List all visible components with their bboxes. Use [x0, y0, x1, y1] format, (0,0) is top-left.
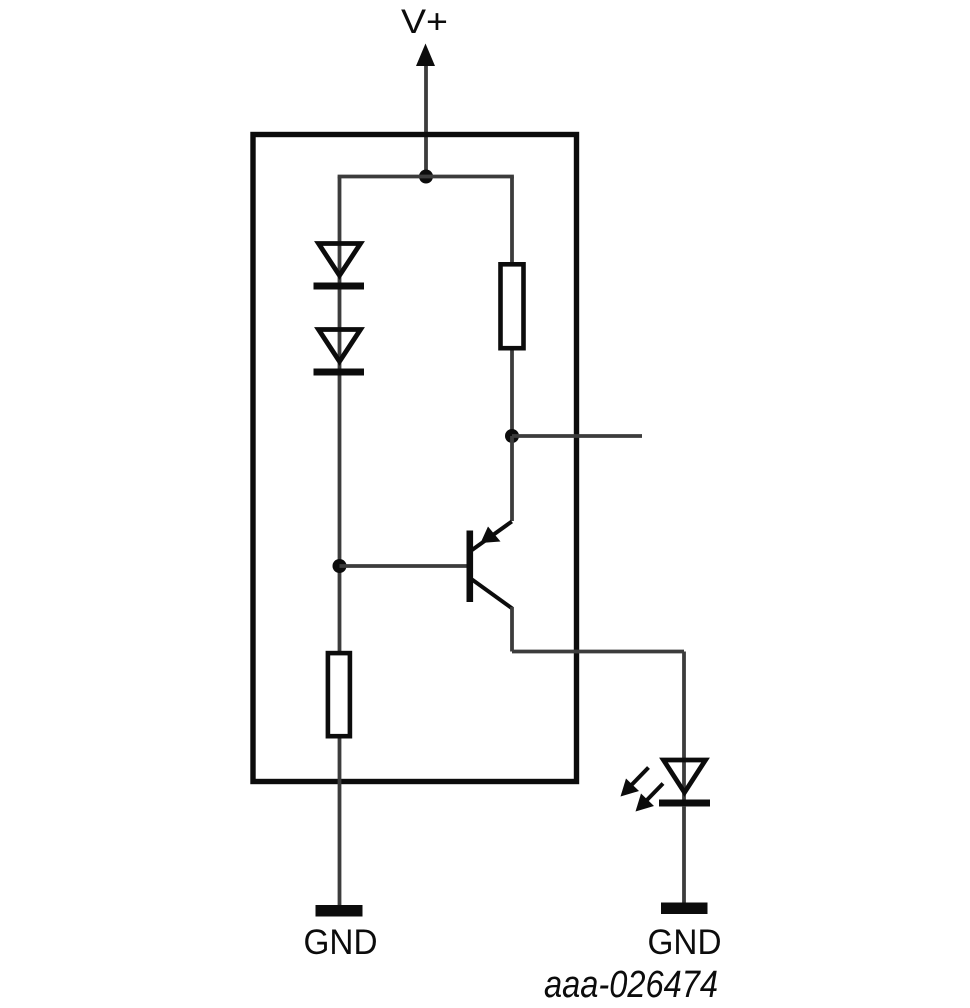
LED light arrow 1 — [621, 768, 649, 797]
resistor R2 bottom left — [328, 653, 350, 736]
IC boundary box U1 — [253, 135, 577, 782]
wire left branch vertical — [338, 177, 342, 652]
wire LED anode vertical — [682, 652, 686, 802]
diode D1 triangle — [319, 244, 361, 276]
wire LED cathode to GND — [682, 806, 686, 903]
diode D1 cathode bar — [314, 283, 365, 290]
wire collector vertical — [510, 607, 514, 652]
wire V+ supply vertical — [424, 58, 428, 177]
transistor Q1 emitter diagonal — [472, 522, 512, 551]
node base junction dot — [333, 559, 347, 573]
svg-text:V+: V+ — [401, 3, 448, 41]
diode D2 cathode bar — [314, 369, 365, 376]
wire collector horizontal to LED — [512, 650, 684, 654]
transistor Q1 base bar — [467, 531, 474, 603]
wire node to emitter — [510, 436, 514, 521]
wire top rail horizontal — [338, 175, 514, 179]
diode D2 triangle — [319, 330, 361, 362]
svg-text:aaa-026474: aaa-026474 — [544, 964, 718, 1006]
wire output horizontal — [512, 434, 642, 438]
transistor Q1 collector diagonal — [472, 580, 512, 609]
node V+ junction dot — [419, 170, 433, 184]
V+ arrowhead — [416, 44, 435, 67]
LED light arrow 2 — [636, 784, 664, 812]
resistor R1 — [501, 264, 524, 348]
LED triangle — [664, 760, 706, 793]
svg-text:GND: GND — [304, 923, 378, 962]
node output junction dot — [505, 429, 519, 443]
svg-text:GND: GND — [648, 923, 722, 962]
transistor Q1 emitter arrowhead — [481, 527, 501, 544]
wire right branch upper vertical — [510, 177, 514, 263]
ground GND right bar — [661, 903, 708, 915]
ground GND left bar — [316, 905, 363, 917]
wire R1 to node — [510, 351, 514, 437]
wire R2 to GND — [338, 739, 342, 906]
wire base horizontal — [340, 564, 468, 568]
LED cathode bar — [659, 800, 710, 807]
